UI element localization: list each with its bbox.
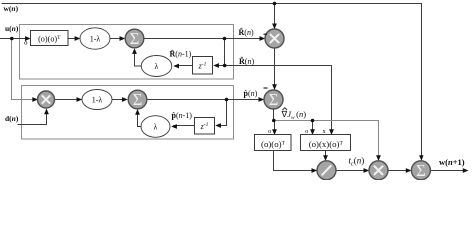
svg-text:Σ: Σ [416, 161, 426, 180]
svg-text:Σ: Σ [133, 90, 143, 109]
svg-text:Σ: Σ [269, 90, 279, 109]
svg-text:d(n): d(n) [5, 114, 19, 123]
svg-text:u(n): u(n) [5, 24, 19, 33]
svg-text:x: x [322, 128, 326, 135]
svg-text:R̂(n): R̂(n) [239, 27, 254, 37]
svg-text:w(n+1): w(n+1) [439, 157, 465, 167]
svg-text:R̂(n-1): R̂(n-1) [170, 48, 192, 58]
svg-text:λ: λ [155, 62, 159, 71]
svg-text:Σ: Σ [130, 29, 140, 48]
svg-text:(o)(x)(o)T: (o)(x)(o)T [309, 139, 344, 149]
svg-text:o: o [305, 128, 308, 135]
svg-text:∇Jw(n): ∇Jw(n) [281, 109, 307, 121]
svg-text:1-λ: 1-λ [92, 95, 103, 104]
svg-text:tc(n): tc(n) [349, 156, 365, 168]
svg-text:λ: λ [154, 123, 158, 132]
svg-text:p̂(n): p̂(n) [244, 89, 258, 98]
svg-text:δ: δ [24, 38, 28, 47]
svg-text:1-λ: 1-λ [90, 34, 101, 43]
svg-text:w(n): w(n) [4, 4, 19, 13]
svg-text:o: o [268, 128, 271, 135]
svg-text:R̂(n): R̂(n) [239, 56, 254, 66]
svg-text:p̂(n-1): p̂(n-1) [172, 111, 193, 120]
